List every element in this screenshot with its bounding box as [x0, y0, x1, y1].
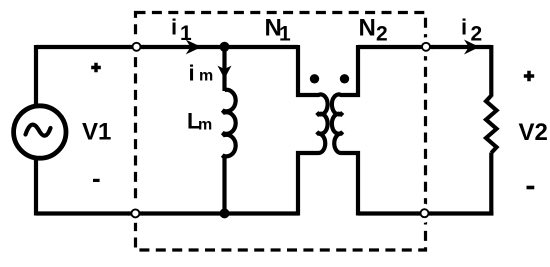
- svg-text:1: 1: [180, 22, 192, 45]
- polarity dot (primary): [310, 74, 319, 83]
- dashed box (ideal transformer model boundary): [136, 13, 426, 251]
- resistor (load zigzag): [486, 96, 497, 153]
- wire: bottom-right horizontal (load to secondary bottom): [358, 211, 493, 215]
- junction: Lm top node: [220, 42, 230, 52]
- polarity + (V2): [524, 71, 534, 81]
- wire: Lm branch bottom (coil to bottom junction): [222, 158, 226, 214]
- label i2: [461, 15, 482, 46]
- wire: top-right horizontal (secondary to load corner): [358, 45, 491, 49]
- current arrow im (downward): [218, 66, 232, 79]
- polarity - (V2): [527, 186, 535, 190]
- polarity dot (secondary): [340, 74, 349, 83]
- label Lm: [187, 109, 212, 134]
- svg-text:V1: V1: [82, 119, 111, 146]
- transformer secondary winding N2 (with connectors): [332, 45, 358, 216]
- node: bottom-right boundary terminal (open circle): [417, 204, 432, 223]
- current arrow i2: [464, 40, 479, 55]
- node: top-left boundary terminal (open circle): [129, 37, 144, 56]
- svg-text:V2: V2: [519, 119, 548, 146]
- wire: left vertical below V1: [34, 160, 38, 216]
- voltage source V1 (AC source circle with sine): [14, 106, 66, 158]
- node: top-right boundary terminal (open circle): [419, 37, 434, 56]
- label im: [189, 61, 214, 86]
- wire: Lm branch top (junction to coil): [222, 47, 226, 91]
- wire: right vertical below resistor: [489, 153, 493, 216]
- wire: right vertical above resistor: [489, 45, 493, 97]
- wire: left vertical above V1: [34, 45, 38, 104]
- polarity - (V1): [93, 179, 100, 182]
- svg-text:i: i: [189, 61, 195, 86]
- label i1: [171, 15, 192, 45]
- svg-text:i: i: [461, 15, 467, 40]
- junction: Lm bottom node: [220, 208, 230, 218]
- wire: top-left horizontal (V1 top to primary corner): [36, 45, 298, 49]
- inductor Lm (3-bump coil): [223, 90, 236, 158]
- svg-text:N: N: [359, 15, 376, 42]
- transformer primary winding N1 (with connectors): [298, 45, 328, 216]
- label N2: [359, 15, 388, 46]
- svg-text:i: i: [171, 15, 177, 40]
- svg-text:2: 2: [471, 22, 483, 45]
- polarity + (V1): [91, 63, 101, 73]
- svg-text:1: 1: [279, 23, 291, 46]
- node: bottom-left boundary terminal (open circle): [128, 204, 143, 223]
- wire: bottom-left horizontal (V1 bottom to primary bottom corner): [36, 211, 299, 215]
- current arrow i1: [186, 40, 202, 55]
- label N1: [265, 15, 292, 46]
- svg-text:m: m: [199, 68, 213, 85]
- svg-text:2: 2: [376, 23, 388, 46]
- svg-text:m: m: [198, 117, 212, 134]
